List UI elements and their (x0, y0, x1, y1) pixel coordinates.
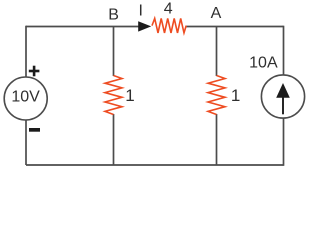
wire right upper (top rail to I1) (283, 26, 285, 75)
wire left upper (top rail to V1) (25, 26, 27, 77)
svg-text:B: B (108, 7, 119, 24)
current source IS1 circle (261, 75, 304, 118)
resistor R1 vertical zigzag at node B (105, 76, 122, 115)
wire node B lower (R1 to bottom rail) (113, 114, 115, 165)
svg-text:1: 1 (125, 86, 134, 105)
wire right lower (I1 to bottom rail) (283, 118, 285, 166)
wire node B drop (top rail to R1) (113, 27, 115, 77)
voltage source VS1 circle (4, 77, 47, 120)
current source IS1 arrow head (276, 83, 290, 98)
current source IS1 arrow stem (282, 90, 284, 114)
wire top right segment (R 4 to current source) (186, 26, 284, 28)
svg-text:1: 1 (231, 86, 240, 105)
voltage source minus sign (29, 128, 40, 132)
current direction arrow I (138, 21, 151, 31)
resistor R2 vertical zigzag at node A (208, 76, 225, 115)
resistor R3 horizontal zigzag (value 4) (152, 18, 186, 33)
wire node A drop (top rail to R2) (216, 27, 218, 77)
svg-text:4: 4 (164, 1, 173, 18)
wire bottom rail (26, 164, 284, 166)
svg-text:10A: 10A (249, 54, 278, 71)
wire node A lower (R2 to bottom rail) (216, 114, 218, 165)
wire left lower (V1 to bottom rail) (25, 120, 27, 165)
wire top left segment (V1 top to arrow I) (26, 26, 139, 28)
voltage source plus sign (29, 66, 40, 77)
svg-text:A: A (211, 5, 222, 22)
svg-text:I: I (138, 3, 142, 20)
svg-text:10V: 10V (11, 89, 40, 106)
